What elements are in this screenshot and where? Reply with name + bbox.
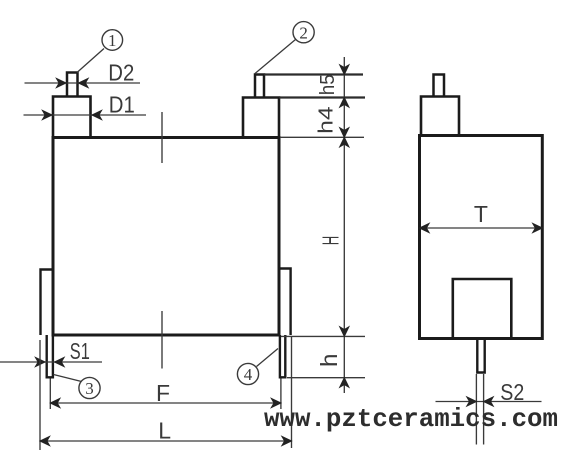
svg-text:D1: D1 bbox=[109, 92, 135, 118]
svg-text:h: h bbox=[316, 353, 342, 367]
svg-text:2: 2 bbox=[299, 23, 308, 42]
svg-text:1: 1 bbox=[108, 31, 117, 50]
dimension D2 line bbox=[25, 82, 141, 84]
body top extension line bbox=[280, 136, 364, 138]
body bottom extension line bbox=[281, 335, 365, 337]
svg-text:3: 3 bbox=[85, 379, 94, 398]
balloon 3 leader bbox=[54, 375, 82, 382]
left terminal block bbox=[53, 97, 91, 138]
pin top extension line bbox=[264, 73, 363, 75]
dimension F extension lines bbox=[49, 379, 51, 410]
balloon 2 bbox=[293, 22, 314, 43]
balloon 3 bbox=[79, 377, 100, 398]
left tab lower part bbox=[47, 335, 53, 377]
svg-text:L: L bbox=[158, 418, 171, 444]
side pin bbox=[434, 75, 445, 97]
svg-text:h4: h4 bbox=[316, 106, 338, 134]
side terminal block bbox=[421, 97, 459, 136]
right pin bbox=[255, 75, 264, 98]
left solder tab plate bbox=[41, 270, 54, 336]
side tab bbox=[477, 339, 484, 373]
balloon 4 leader bbox=[257, 349, 279, 367]
dimension L line bbox=[40, 440, 292, 442]
tab bottom extension line bbox=[287, 377, 365, 379]
centerline top bbox=[161, 112, 163, 163]
balloon 1 bbox=[102, 30, 123, 51]
dimension T line bbox=[420, 227, 543, 229]
side inner block bbox=[453, 279, 512, 339]
balloon 2 leader bbox=[255, 40, 296, 74]
svg-text:H: H bbox=[317, 236, 343, 246]
left pin bbox=[67, 73, 78, 97]
dimension S2 extension lines bbox=[475, 374, 477, 445]
svg-text:D2: D2 bbox=[108, 59, 134, 85]
svg-text:F: F bbox=[156, 380, 170, 406]
svg-text:S1: S1 bbox=[70, 338, 90, 364]
main body front view bbox=[53, 138, 279, 336]
dimension S2 line bbox=[436, 401, 542, 403]
dimension F line bbox=[50, 402, 281, 404]
dimension D1 line bbox=[24, 114, 147, 116]
svg-text:T: T bbox=[474, 201, 488, 227]
dimension S1 line bbox=[0, 361, 102, 363]
dimension L extension lines bbox=[39, 340, 41, 450]
balloon 1 leader bbox=[77, 49, 104, 73]
side body bbox=[420, 136, 543, 339]
balloon 4 bbox=[237, 363, 258, 384]
right tab lower part bbox=[280, 335, 285, 377]
block top extension line bbox=[279, 96, 365, 98]
svg-text:www.pztceramics.com: www.pztceramics.com bbox=[264, 404, 558, 434]
svg-text:S2: S2 bbox=[500, 379, 524, 405]
svg-text:h5: h5 bbox=[317, 74, 339, 95]
svg-text:4: 4 bbox=[244, 365, 253, 384]
vertical dimension line bbox=[343, 57, 345, 393]
right terminal block bbox=[243, 98, 279, 138]
centerline bottom bbox=[161, 311, 163, 369]
right solder tab plate bbox=[279, 269, 291, 336]
